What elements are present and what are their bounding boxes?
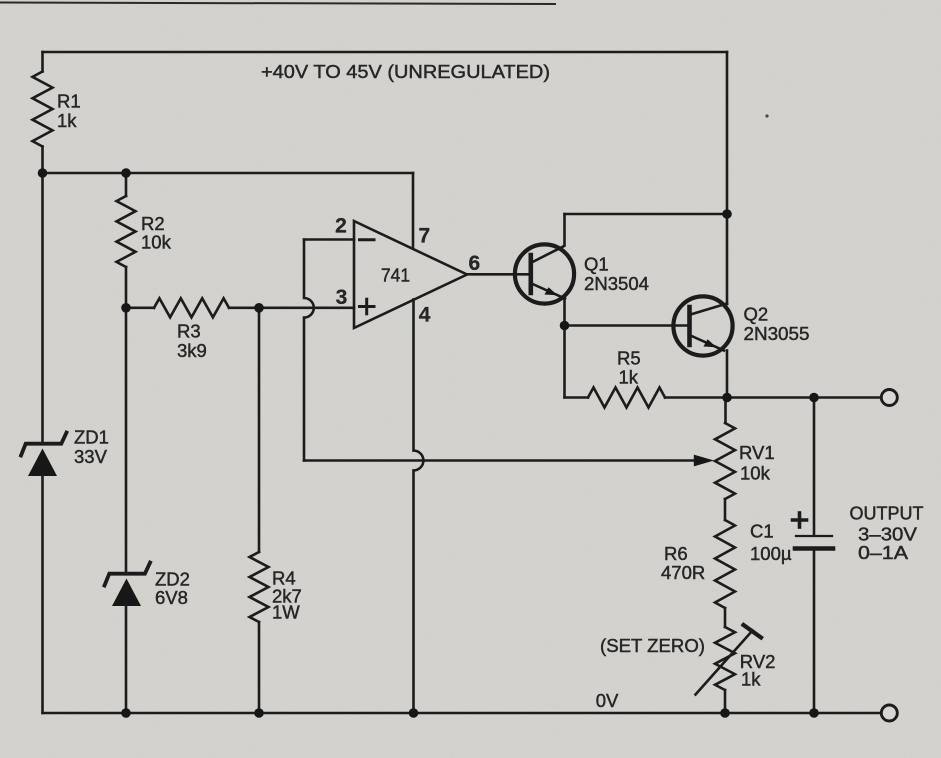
transistor Q2 circle xyxy=(673,296,732,355)
junction node C1 top xyxy=(809,393,819,403)
wire ZD2 to bottom rail xyxy=(125,604,128,713)
zener diode ZD1 xyxy=(21,433,67,456)
resistor R4 xyxy=(250,552,269,622)
junction node RV2 at 0V xyxy=(720,708,730,718)
op-amp plus input sign xyxy=(360,299,375,314)
wire R2 to node xyxy=(125,267,128,308)
op-amp minus input sign xyxy=(360,238,375,241)
junction node at R1 bottom xyxy=(38,168,48,178)
svg-text:33V: 33V xyxy=(74,446,108,467)
wire node line at y=173 xyxy=(43,172,414,175)
svg-text:6V8: 6V8 xyxy=(155,587,188,608)
svg-text:100µ: 100µ xyxy=(750,543,792,564)
svg-text:10k: 10k xyxy=(141,232,172,253)
potentiometer RV1 xyxy=(715,423,735,499)
resistor R1 xyxy=(33,72,53,147)
wire RV2 to bottom rail xyxy=(724,690,727,713)
svg-text:2N3504: 2N3504 xyxy=(584,273,649,294)
svg-text:470R: 470R xyxy=(661,562,705,583)
wire node to R3 xyxy=(126,306,154,309)
resistor R6 xyxy=(715,520,735,608)
junction node ZD2 at 0V xyxy=(121,708,131,718)
wire capacitor C1 bottom xyxy=(813,551,816,713)
wire R5 left riser xyxy=(563,326,566,398)
junction node R4 at 0V xyxy=(254,708,264,718)
wire Q1 emitter to Q2 base xyxy=(565,324,689,327)
wire pin 4 drop with hop over feedback wire xyxy=(414,299,424,713)
resistor R5 xyxy=(588,388,665,408)
wire right rail upper xyxy=(726,52,729,304)
wire R6 to RV2 xyxy=(724,608,727,627)
junction node output at Q2 emitter xyxy=(722,393,732,403)
preset potentiometer RV2 xyxy=(715,627,735,690)
svg-text:7: 7 xyxy=(419,225,431,248)
wire capacitor C1 top xyxy=(813,398,816,535)
capacitor C1 xyxy=(796,535,832,537)
wire top supply rail xyxy=(43,51,728,54)
junction node R2 top xyxy=(121,168,131,178)
svg-text:3: 3 xyxy=(336,286,348,309)
wire pin 6 output to Q1 base xyxy=(467,273,529,276)
svg-text:3k9: 3k9 xyxy=(177,340,207,361)
svg-text:R6: R6 xyxy=(664,543,688,564)
output terminal positive xyxy=(881,390,897,406)
svg-text:+40V TO 45V (UNREGULATED): +40V TO 45V (UNREGULATED) xyxy=(261,61,550,82)
svg-text:1k: 1k xyxy=(619,367,639,388)
svg-text:0V: 0V xyxy=(596,690,619,711)
svg-text:RV1: RV1 xyxy=(739,442,775,463)
svg-text:Q2: Q2 xyxy=(744,304,769,325)
svg-text:1W: 1W xyxy=(272,602,300,623)
wire Q2 emitter to output node xyxy=(726,351,729,398)
resistor R2 xyxy=(117,196,136,267)
junction node Q1 emitter / Q2 base xyxy=(560,321,570,331)
junction node Q1 collector at rail xyxy=(722,209,732,219)
svg-text:3–30V: 3–30V xyxy=(858,523,918,544)
svg-text:2: 2 xyxy=(335,214,347,237)
svg-text:741: 741 xyxy=(381,265,410,286)
wire pin 7 supply drop xyxy=(412,173,415,249)
wire R3 to pin 3 of op-amp xyxy=(229,306,354,309)
svg-text:R5: R5 xyxy=(617,348,641,369)
output terminal negative xyxy=(881,705,897,721)
svg-text:ZD1: ZD1 xyxy=(74,427,109,448)
transistor Q1 collector xyxy=(532,214,565,263)
RV2 preset adjustment arrow xyxy=(696,631,753,695)
wire RV1 riser xyxy=(724,398,727,424)
op-amp U1 741 triangle xyxy=(354,221,467,328)
transistor Q1 base bar xyxy=(528,255,533,293)
wire ZD1 to bottom rail xyxy=(41,474,44,713)
svg-text:6: 6 xyxy=(469,252,481,275)
capacitor C1 polarity plus xyxy=(793,513,807,527)
svg-text:4: 4 xyxy=(419,304,431,327)
wire node to ZD2 xyxy=(125,308,128,574)
junction node R3 right / R4 top xyxy=(254,303,264,313)
wire bottom 0V rail xyxy=(43,712,882,715)
transistor Q2 base bar xyxy=(687,307,692,345)
svg-text:C1: C1 xyxy=(750,521,774,542)
svg-text:(SET ZERO): (SET ZERO) xyxy=(600,635,705,656)
junction node C1 at 0V xyxy=(809,708,819,718)
transistor Q1 emitter xyxy=(532,284,566,299)
svg-text:2N3055: 2N3055 xyxy=(744,323,810,344)
wire Q1 collector rail xyxy=(565,213,728,216)
wire R5 to output node xyxy=(665,396,727,399)
junction node R2 bottom / R3 left xyxy=(121,303,131,313)
wire pin 2 stub xyxy=(304,238,354,241)
wire output node to terminal xyxy=(727,396,881,399)
resistor R3 xyxy=(154,298,229,317)
wire RV1 to R6 xyxy=(724,499,727,520)
transistor Q1 circle xyxy=(515,244,574,303)
wiper arrowhead into RV1 xyxy=(694,455,714,467)
svg-text:1k: 1k xyxy=(57,110,77,131)
wire to R5 xyxy=(565,396,589,399)
svg-text:Q1: Q1 xyxy=(584,254,609,275)
wire feedback vertical with hop over pin-3 wire xyxy=(304,240,314,461)
transistor Q2 collector xyxy=(691,304,728,315)
wire R4 to bottom rail xyxy=(258,622,261,713)
junction node pin4 at 0V xyxy=(409,708,419,718)
svg-text:0–1A: 0–1A xyxy=(858,542,909,563)
transistor Q2 emitter xyxy=(691,336,725,351)
svg-text:1k: 1k xyxy=(741,669,761,690)
svg-text:10k: 10k xyxy=(740,463,771,484)
zener diode ZD2 xyxy=(105,563,151,586)
wire R1 to ZD1 xyxy=(41,147,44,444)
wire Q1 emitter drop xyxy=(563,297,566,326)
svg-text:R1: R1 xyxy=(57,91,81,112)
wire feedback horizontal to RV1 wiper xyxy=(304,459,696,462)
svg-text:OUTPUT: OUTPUT xyxy=(850,502,924,523)
wire R4 branch xyxy=(258,308,261,552)
wire left vertical upper (top rail to R1) xyxy=(41,52,44,72)
svg-text:R3: R3 xyxy=(177,321,201,342)
wire R2 branch top xyxy=(125,173,128,196)
